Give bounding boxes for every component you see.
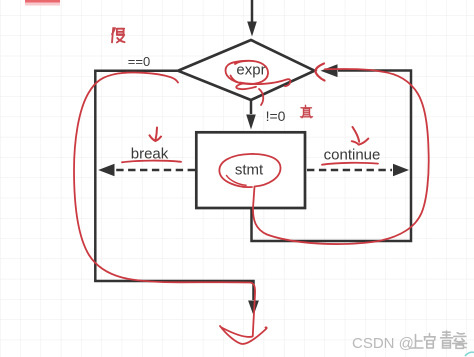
red underline under continue — [322, 163, 378, 165]
red hanzi jia (false) — [112, 28, 125, 42]
red mark ")" near !=0 — [259, 89, 263, 105]
red v squiggle under bottom arrow — [220, 326, 267, 344]
red v squiggle second stroke — [222, 328, 253, 337]
svg-text:CSDN @: CSDN @ — [352, 335, 414, 352]
wire: entry arrow into diamond — [251, 0, 254, 22]
svg-text:continue: continue — [324, 147, 381, 164]
wire: loop-back path stmt bottom to diamond right — [252, 71, 412, 242]
red small down-arrow doodle above continue — [352, 127, 369, 145]
red double stroke lower-left of stmt ellipse — [227, 176, 247, 186]
svg-text:==0: ==0 — [128, 54, 150, 69]
red big stroke: stmt ellipse, down, around right side up to diamond — [219, 69, 428, 244]
arrowhead: continue (points right) — [393, 164, 409, 177]
diamond expr — [178, 40, 315, 100]
pink toolbar remnant top-left — [25, 0, 60, 3]
red big stroke: left curve from diamond-left down and along bottom to exit arrow — [74, 73, 255, 336]
red annotations — [74, 61, 429, 344]
teal corner mark — [465, 352, 474, 356]
arrowhead: top entry — [247, 22, 257, 37]
wire: false path left and bottom exit — [95, 71, 253, 300]
arrowhead: bottom exit (points down) — [248, 301, 259, 316]
rect stmt — [196, 132, 305, 208]
svg-text:stmt: stmt — [235, 162, 264, 179]
red strike under expr with right hook — [240, 79, 290, 86]
red underline under break — [122, 161, 181, 163]
arrowhead: into diamond right vertex — [321, 64, 338, 77]
red chevron arrowhead at diamond right — [316, 64, 325, 81]
red small down-arrow doodle above break — [150, 128, 162, 142]
red hanzi zhen (true) — [301, 105, 313, 118]
watermark hanzi shang guan qing luan — [410, 331, 467, 348]
svg-text:!=0: !=0 — [266, 108, 286, 124]
wire: continue dashed — [307, 169, 392, 172]
red scribble circle around expr — [226, 61, 269, 84]
red scribble inner squiggle expr — [231, 76, 257, 90]
red scribble second top stroke expr — [229, 61, 252, 65]
arrowhead: break (points left) — [98, 164, 114, 177]
wire: diamond to stmt rect — [250, 100, 253, 114]
arrowhead: into stmt — [246, 115, 256, 130]
wire: break dashed — [115, 169, 195, 172]
